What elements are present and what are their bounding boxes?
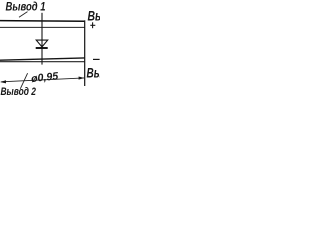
package bottom wall — [0, 58, 85, 60]
label: Вывод 2 (pin 2, bottom-left) — [1, 86, 37, 98]
dimension line for lead diameter — [1, 78, 84, 82]
wire: pin 2 lead (bottom rail) — [0, 61, 85, 63]
diode VD1: anode triangle — [36, 40, 48, 47]
leader line to pin 2 wire — [20, 73, 27, 89]
svg-text:Вывод 2: Вывод 2 — [1, 86, 37, 98]
svg-text:Вывод 4: Вывод 4 — [87, 65, 100, 81]
svg-text:Вывод 3: Вывод 3 — [88, 8, 101, 24]
dimension arrowhead left — [0, 80, 6, 83]
label: Вывод 3 (pin 3, top-right, cut off) — [88, 8, 132, 24]
wire: pin 1 lead (top rail) — [0, 20, 85, 23]
wire: diode vertical lead through package — [41, 13, 43, 65]
package top wall — [0, 26, 85, 28]
polarity mark − near pin 4 — [93, 58, 100, 60]
dimension arrowhead right — [79, 77, 85, 80]
diode VD1: cathode bar — [36, 47, 48, 49]
label: Вывод 1 (pin 1, top-left) — [6, 0, 46, 13]
polarity mark + near pin 3 — [90, 24, 95, 26]
svg-text:Вывод 1: Вывод 1 — [6, 0, 46, 13]
leader line to pin 1 wire — [19, 12, 28, 18]
package right edge / dimension extension line — [84, 20, 86, 86]
label: Вывод 4 (pin 4, bottom-right, cut off) — [87, 65, 129, 81]
